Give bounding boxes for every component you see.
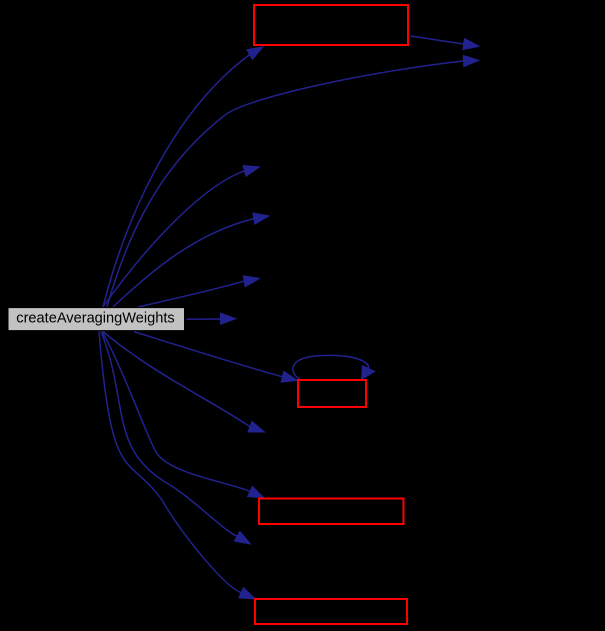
node box4 (red) [255, 599, 407, 624]
arrowhead edge to box1 [247, 47, 263, 60]
arrowhead edge to box4 [239, 588, 255, 599]
wire edge createAveragingWeights -> box4 [99, 332, 241, 593]
arrowhead edge to hidden node 6 [234, 531, 250, 544]
wire edge createAveragingWeights -> hidden node 1 [103, 171, 245, 307]
svg-text:createAveragingWeights: createAveragingWeights [16, 311, 174, 327]
wire edge createAveragingWeights -> box3 [102, 332, 250, 492]
arrowhead edge to hidden node 5 [248, 421, 265, 432]
wire edge createAveragingWeights -> hidden node 5 [103, 332, 250, 427]
arrowhead edge to right node B [463, 55, 479, 66]
arrowhead edge to box3 [248, 486, 264, 498]
wire edge createAveragingWeights -> box2 [134, 332, 283, 377]
node box2 (red, self-loop) [298, 380, 366, 407]
arrowhead edge to hidden node 1 [243, 166, 259, 177]
wire edge createAveragingWeights -> hidden node 4 (horizontal) [187, 318, 221, 320]
node createAveragingWeights (current node, grey) [8, 308, 185, 331]
node box3 (red) [259, 499, 404, 525]
arrowhead edge box1 -> right node A [463, 39, 479, 50]
wire edge createAveragingWeights -> hidden node 3 [138, 281, 244, 307]
wire edge createAveragingWeights -> box1 [103, 55, 250, 307]
wire edge createAveragingWeights -> right node B (long swoop) [107, 61, 464, 307]
wire edge createAveragingWeights -> hidden node 2 [113, 219, 254, 307]
arrowhead edge to hidden node 2 [253, 213, 269, 224]
wire edge createAveragingWeights -> hidden node 6 [101, 332, 237, 537]
arrowhead self-loop [362, 366, 375, 380]
wire edge box1 -> right node A [411, 36, 464, 44]
arrowhead edge to box2 [281, 371, 297, 382]
wire self-loop on box2 [293, 355, 368, 380]
node box1 (red, top) [254, 5, 408, 45]
arrowhead edge to hidden node 4 [220, 313, 236, 324]
arrowhead edge to hidden node 3 [243, 276, 259, 287]
